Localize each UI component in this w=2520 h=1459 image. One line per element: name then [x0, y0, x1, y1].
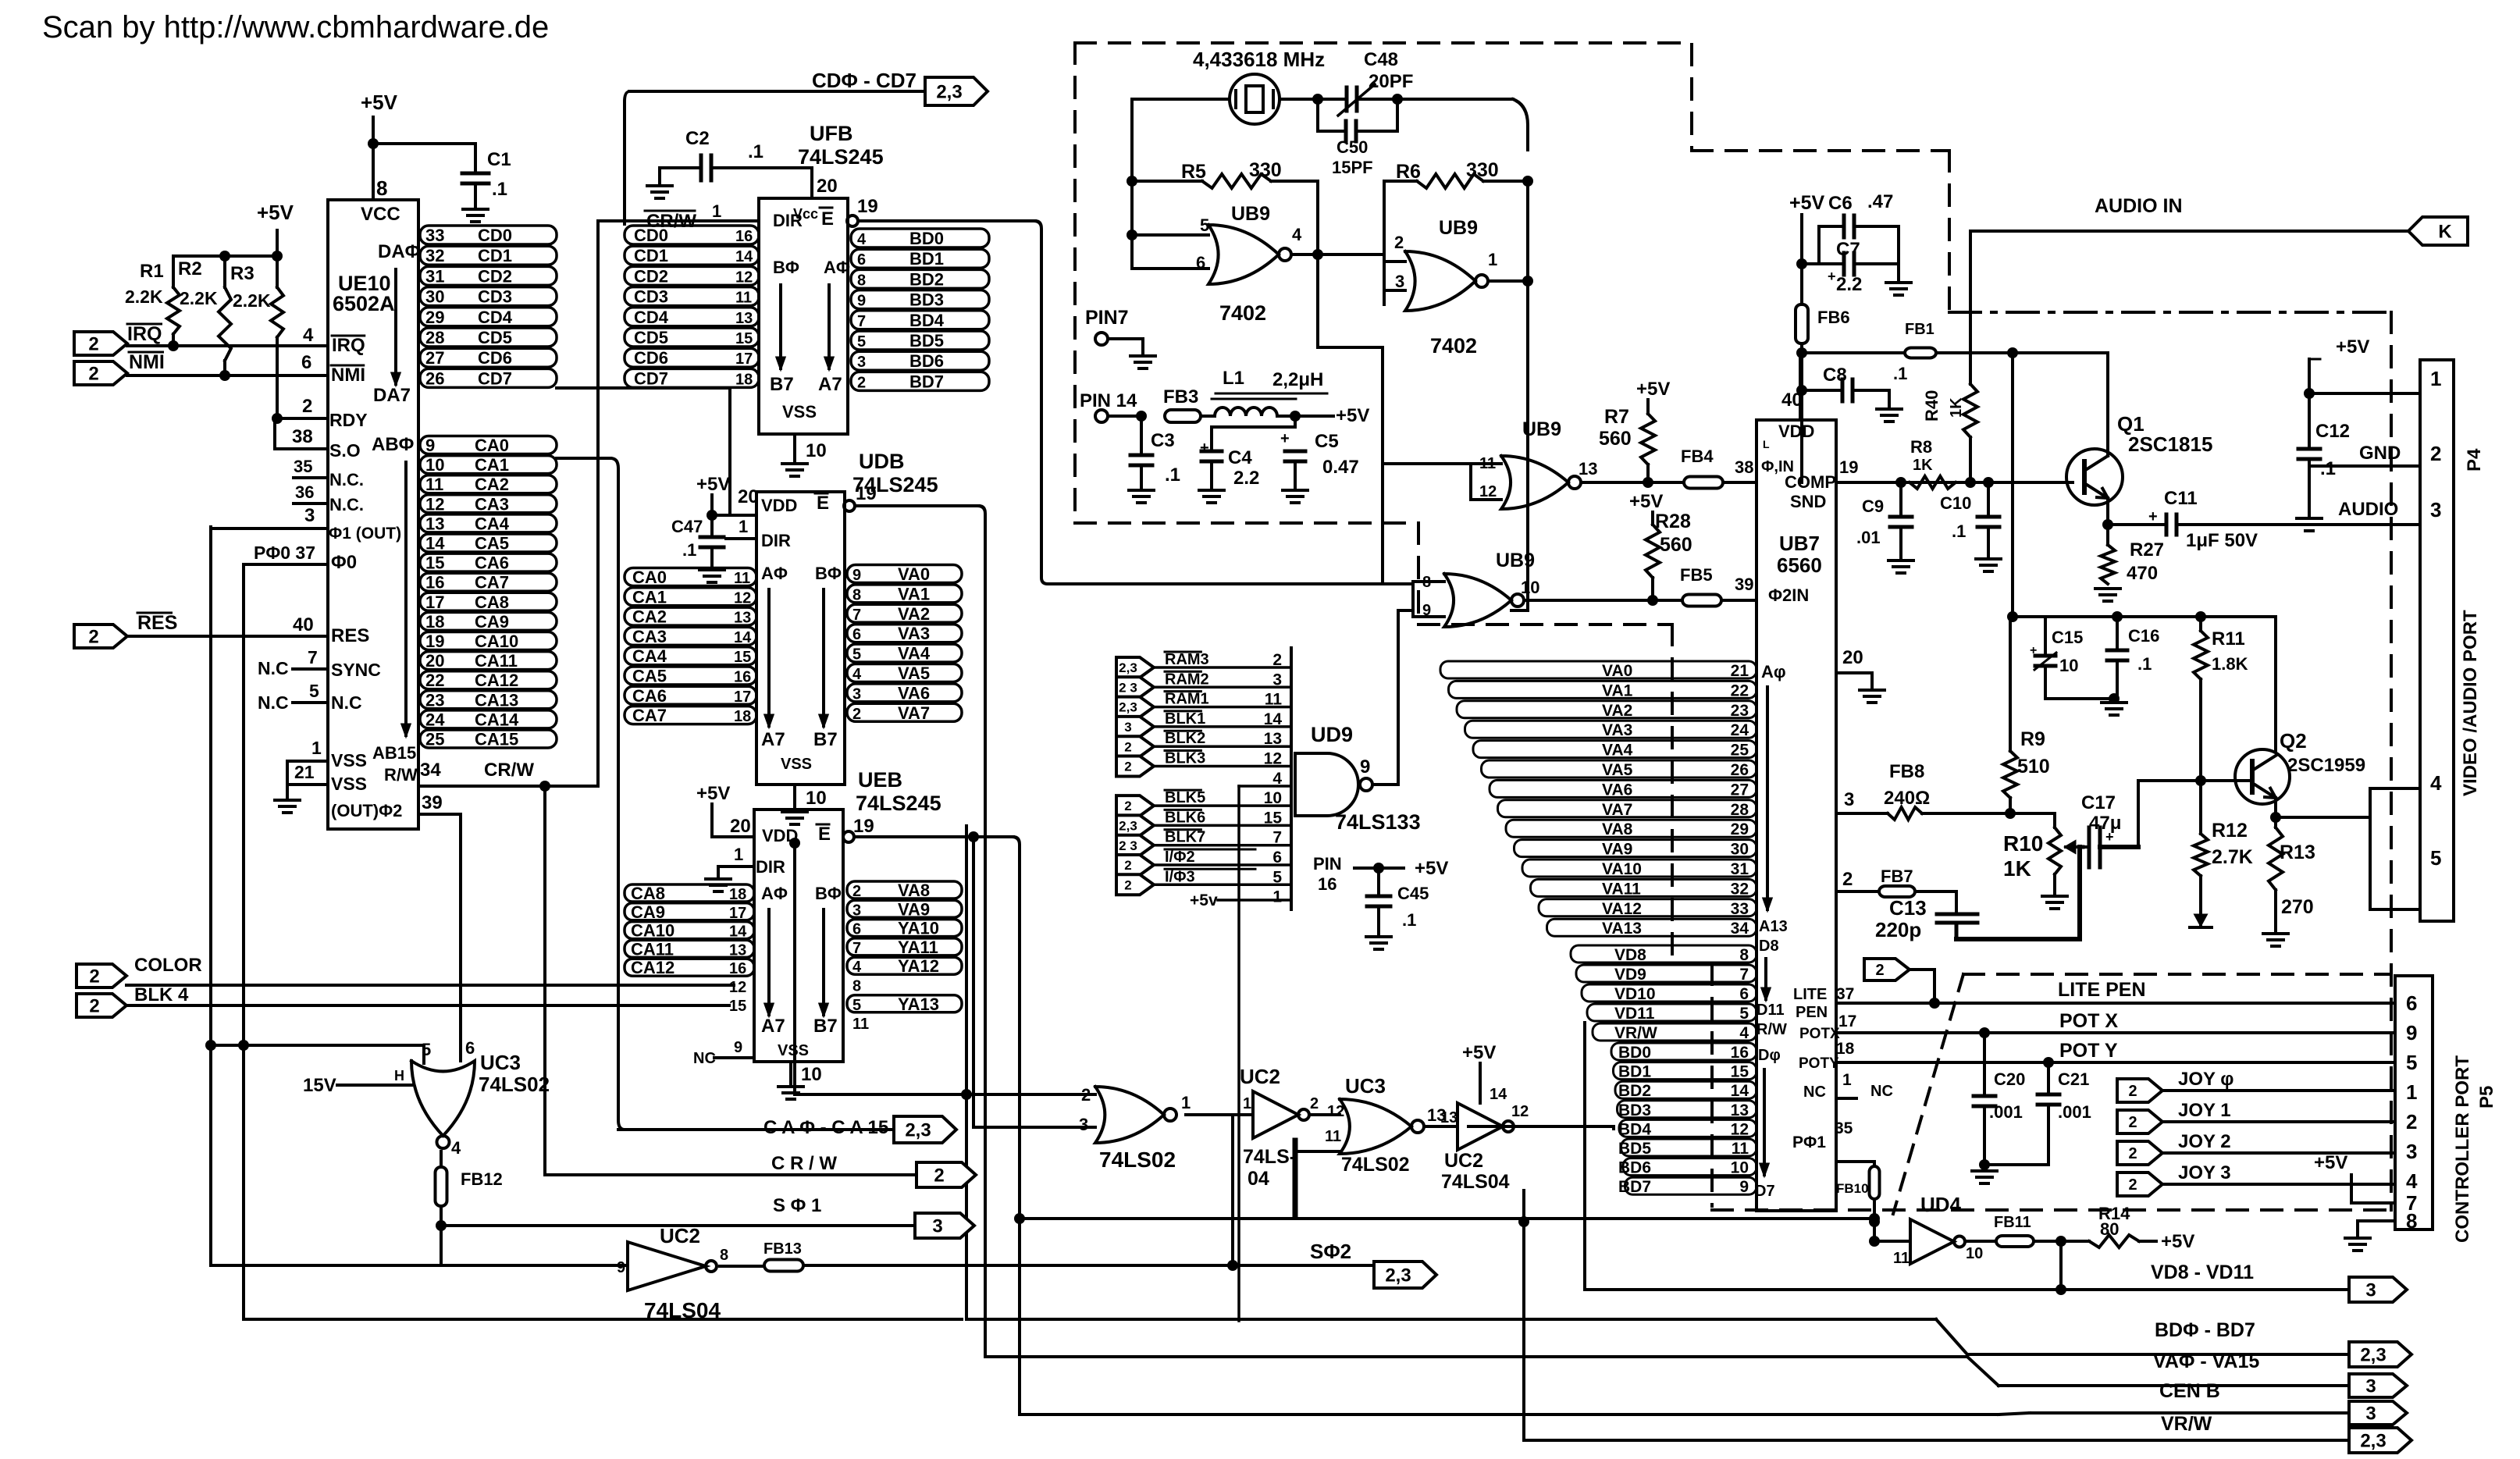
wire IRQ — [127, 344, 328, 347]
svg-text:VA3: VA3 — [898, 624, 930, 643]
svg-text:2,3: 2,3 — [2360, 1345, 2386, 1366]
svg-text:74LS02: 74LS02 — [479, 1073, 550, 1096]
svg-text:19: 19 — [1839, 457, 1858, 477]
svg-text:YA11: YA11 — [898, 938, 938, 957]
svg-text:9: 9 — [425, 436, 435, 455]
svg-text:BDΦ - BD7: BDΦ - BD7 — [2155, 1319, 2255, 1341]
svg-text:SΦ2: SΦ2 — [1310, 1240, 1351, 1263]
svg-text:CA11: CA11 — [631, 939, 674, 959]
svg-text:19: 19 — [856, 483, 877, 504]
svg-text:2: 2 — [2128, 1083, 2137, 1100]
svg-text:R1: R1 — [140, 261, 164, 282]
svg-text:2: 2 — [302, 396, 312, 417]
svg-text:21: 21 — [294, 762, 315, 782]
svg-text:2,3: 2,3 — [1119, 819, 1137, 834]
svg-text:2: 2 — [1124, 877, 1131, 892]
svg-text:13: 13 — [729, 941, 746, 959]
svg-text:CA6: CA6 — [632, 686, 667, 706]
svg-text:RAM2: RAM2 — [1165, 671, 1209, 688]
svg-text:C2: C2 — [685, 128, 710, 149]
RES input flag from page 2 — [74, 625, 127, 648]
svg-text:+5V: +5V — [2161, 1231, 2194, 1252]
svg-text:BΦ: BΦ — [815, 884, 842, 903]
svg-text:CA10: CA10 — [475, 632, 518, 651]
svg-text:.001: .001 — [1989, 1102, 2023, 1122]
wire BLK4 to UEB pin 15 — [126, 1004, 729, 1007]
svg-text:C7: C7 — [1836, 239, 1860, 260]
svg-text:12: 12 — [1327, 1103, 1344, 1120]
svg-text:CA9: CA9 — [631, 902, 665, 922]
svg-text:20PF: 20PF — [1369, 71, 1413, 92]
svg-text:CA4: CA4 — [632, 646, 667, 666]
svg-text:RES: RES — [331, 625, 369, 646]
svg-text:12: 12 — [1511, 1103, 1529, 1120]
svg-text:12: 12 — [1731, 1120, 1749, 1138]
wire to +5V — [1295, 415, 1333, 418]
svg-text:9: 9 — [734, 1039, 742, 1056]
long wire phi1 out down-left — [209, 527, 212, 1265]
svg-text:(OUT)Φ2: (OUT)Φ2 — [331, 801, 402, 820]
svg-text:17: 17 — [425, 592, 444, 612]
svg-text:D8: D8 — [1759, 938, 1779, 955]
svg-text:2,3: 2,3 — [1119, 660, 1137, 675]
UFB output BD0-BD7 rows pins — [851, 229, 989, 247]
svg-text:CA3: CA3 — [475, 494, 509, 514]
JOY 1 flag and wire — [2117, 1110, 2162, 1133]
svg-text:.1: .1 — [748, 141, 763, 162]
svg-text:E: E — [821, 208, 834, 230]
va bus long verticals — [965, 826, 968, 1319]
svg-text:B7: B7 — [770, 374, 794, 395]
wire rail right to Q2 collector — [2274, 617, 2277, 750]
svg-text:BD1: BD1 — [1618, 1063, 1651, 1081]
ferrite bead FB11 — [1965, 1240, 1996, 1243]
svg-text:CA15: CA15 — [475, 730, 518, 749]
svg-text:PΦ1: PΦ1 — [1792, 1133, 1826, 1151]
svg-text:BD6: BD6 — [1618, 1159, 1651, 1177]
capacitor C13 220p — [1955, 891, 1958, 914]
svg-text:BD4: BD4 — [1618, 1120, 1651, 1138]
svg-text:3: 3 — [304, 505, 315, 526]
svg-text:YA13: YA13 — [898, 995, 939, 1014]
pin 1 VSS — [287, 760, 328, 763]
svg-text:1: 1 — [734, 845, 743, 864]
wire from inverter2 output right — [1468, 1125, 1611, 1128]
UEB ground pin 10 — [789, 1062, 792, 1084]
svg-text:+5V: +5V — [257, 201, 294, 224]
UDB output VA0-VA7 rows — [847, 565, 962, 583]
svg-text:DIR: DIR — [761, 531, 791, 550]
svg-text:14: 14 — [734, 629, 752, 646]
svg-text:C45: C45 — [1397, 884, 1429, 903]
svg-text:JOY φ: JOY φ — [2178, 1069, 2233, 1090]
svg-text:COMP: COMP — [1785, 472, 1836, 492]
svg-text:18: 18 — [729, 886, 746, 903]
svg-text:NMI: NMI — [331, 365, 365, 386]
pin 36 N.C. — [294, 502, 325, 505]
svg-text:6: 6 — [1739, 985, 1749, 1003]
svg-text:N.C.: N.C. — [329, 470, 364, 489]
svg-text:6: 6 — [301, 352, 311, 373]
output wire UB9 second — [1488, 279, 1528, 283]
inverter UC2 74LS-04 — [1186, 1113, 1253, 1116]
svg-text:16: 16 — [735, 228, 753, 245]
svg-text:28: 28 — [1731, 801, 1749, 819]
svg-text:LITE PEN: LITE PEN — [2058, 979, 2146, 1001]
svg-text:CA4: CA4 — [475, 514, 510, 533]
wires into UB9 first — [1132, 233, 1208, 237]
svg-text:1: 1 — [2430, 367, 2441, 390]
capacitor C1 .1 — [474, 144, 477, 173]
svg-text:74LS02: 74LS02 — [1099, 1148, 1176, 1172]
svg-text:Vcc: Vcc — [793, 206, 818, 222]
svg-text:VCC: VCC — [361, 204, 400, 225]
svg-text:40: 40 — [293, 614, 314, 635]
svg-text:32: 32 — [1731, 880, 1749, 898]
svg-text:CA9: CA9 — [475, 612, 509, 632]
svg-text:14: 14 — [1731, 1082, 1749, 1100]
svg-text:10: 10 — [801, 1064, 822, 1085]
svg-text:11: 11 — [852, 1016, 869, 1033]
svg-text:R13: R13 — [2280, 842, 2315, 863]
svg-text:VA5: VA5 — [898, 664, 930, 683]
svg-text:10: 10 — [806, 440, 827, 461]
resistor R9 510 — [2009, 617, 2012, 751]
svg-text:2: 2 — [852, 883, 861, 900]
UEB input CA8-CA12 rows — [625, 884, 754, 902]
UEB output VA8-YA13 rows — [847, 881, 962, 899]
svg-text:20: 20 — [738, 486, 759, 507]
svg-text:23: 23 — [1731, 702, 1749, 720]
svg-text:FB7: FB7 — [1881, 867, 1913, 886]
svg-text:2,3: 2,3 — [936, 82, 962, 103]
svg-text:24: 24 — [425, 710, 445, 729]
svg-text:15: 15 — [425, 553, 444, 573]
svg-text:L: L — [1763, 438, 1770, 450]
svg-text:C21: C21 — [2058, 1069, 2089, 1089]
pin 5 N.C — [293, 701, 328, 704]
svg-text:22: 22 — [1731, 681, 1749, 699]
svg-text:6: 6 — [857, 251, 866, 269]
svg-text:470: 470 — [2127, 563, 2158, 584]
svg-text:A13: A13 — [1759, 918, 1788, 935]
svg-text:+5V: +5V — [1629, 491, 1663, 512]
svg-text:220p: 220p — [1875, 918, 1921, 941]
svg-text:CA2: CA2 — [632, 607, 667, 627]
svg-text:2: 2 — [2430, 442, 2441, 465]
svg-text:16: 16 — [1318, 874, 1337, 894]
ground at C2 — [658, 168, 661, 184]
svg-text:12: 12 — [1479, 483, 1497, 500]
UFB input CD0-CD7 rows — [625, 226, 759, 244]
svg-text:JOY 3: JOY 3 — [2178, 1162, 2231, 1183]
svg-text:.1: .1 — [492, 179, 507, 200]
svg-text:E: E — [817, 493, 829, 514]
UDB ground pin 10 — [793, 785, 796, 808]
svg-text:FB10: FB10 — [1836, 1181, 1869, 1196]
output wire UD9 up to UB9 gate4 — [1372, 783, 1398, 786]
svg-text:CA5: CA5 — [632, 667, 667, 686]
svg-text:4: 4 — [1739, 1024, 1749, 1042]
svg-text:4: 4 — [303, 325, 314, 346]
svg-text:CD0: CD0 — [478, 226, 512, 245]
svg-text:5: 5 — [857, 333, 866, 351]
svg-text:VR/W: VR/W — [2161, 1413, 2212, 1435]
svg-text:2: 2 — [1842, 869, 1853, 890]
svg-text:14: 14 — [1490, 1086, 1507, 1103]
svg-text:1: 1 — [1272, 888, 1282, 906]
svg-text:04: 04 — [1248, 1168, 1269, 1190]
svg-text:PΦ0 37: PΦ0 37 — [254, 543, 315, 563]
svg-text:560: 560 — [1599, 428, 1632, 450]
wire S.O bracket — [273, 418, 276, 449]
capacitor C9 .01 — [1899, 482, 1902, 517]
svg-text:UC3: UC3 — [480, 1051, 521, 1074]
wire R5 right down to gate output — [1316, 181, 1319, 347]
dashed box audio section — [1690, 44, 1693, 151]
svg-text:5: 5 — [309, 681, 319, 701]
pin 40 +5V top — [1799, 359, 1802, 420]
svg-text:16: 16 — [734, 669, 751, 686]
buffer UEB 74LS245 body — [754, 810, 843, 1062]
svg-text:C47: C47 — [671, 517, 703, 536]
svg-text:1: 1 — [1181, 1093, 1191, 1112]
svg-text:+5V: +5V — [2314, 1152, 2347, 1173]
svg-text:L1: L1 — [1223, 368, 1244, 389]
capacitor C3 .1 — [1140, 416, 1143, 455]
svg-text:13: 13 — [1579, 459, 1597, 479]
svg-text:17: 17 — [729, 905, 746, 922]
svg-text:C6: C6 — [1828, 193, 1853, 214]
svg-text:BD2: BD2 — [909, 269, 944, 289]
svg-text:17: 17 — [1838, 1012, 1856, 1030]
svg-text:FB11: FB11 — [1994, 1214, 2031, 1231]
svg-text:+: + — [2030, 644, 2037, 657]
svg-text:S.O: S.O — [329, 440, 361, 461]
svg-text:9: 9 — [852, 567, 861, 584]
svg-text:VD8 - VD11: VD8 - VD11 — [2151, 1262, 2254, 1283]
pin 21 VSS — [287, 783, 328, 786]
COLOR input flag — [77, 964, 126, 987]
ferrite bead FB12 — [440, 1151, 443, 1167]
svg-text:2: 2 — [1875, 962, 1884, 979]
svg-text:1: 1 — [712, 201, 721, 221]
svg-text:9: 9 — [617, 1259, 625, 1276]
svg-text:11: 11 — [1732, 1140, 1749, 1158]
svg-text:3: 3 — [1844, 789, 1854, 810]
svg-text:23: 23 — [425, 690, 444, 710]
svg-text:3: 3 — [2430, 498, 2441, 521]
svg-text:7: 7 — [308, 647, 318, 667]
svg-text:VD8: VD8 — [1614, 946, 1646, 964]
svg-text:1: 1 — [739, 517, 748, 536]
svg-text:2: 2 — [88, 364, 98, 385]
svg-text:RAM1: RAM1 — [1165, 691, 1209, 708]
svg-text:R3: R3 — [230, 263, 254, 284]
svg-text:CA14: CA14 — [475, 710, 519, 729]
svg-text:3: 3 — [852, 902, 861, 919]
svg-text:3: 3 — [857, 354, 866, 371]
svg-text:BD0: BD0 — [1618, 1044, 1651, 1062]
svg-text:POTY: POTY — [1799, 1055, 1839, 1072]
svg-text:AΦ: AΦ — [761, 884, 788, 903]
svg-text:P5: P5 — [2476, 1086, 2497, 1108]
svg-text:8: 8 — [2406, 1209, 2417, 1233]
wire from C48 right bending down — [1397, 98, 1513, 101]
svg-text:.1: .1 — [2320, 458, 2336, 479]
svg-text:VA9: VA9 — [898, 899, 930, 919]
JOY 3 flag and wire — [2117, 1173, 2162, 1196]
svg-text:+5v: +5v — [1190, 891, 1218, 909]
svg-text:YA12: YA12 — [898, 956, 939, 976]
svg-text:4,433618 MHz: 4,433618 MHz — [1193, 48, 1325, 71]
svg-text:FB12: FB12 — [461, 1169, 503, 1189]
output wire gate3 through FB4 — [1581, 481, 1684, 484]
svg-text:VA0: VA0 — [1602, 662, 1632, 680]
svg-text:CD0: CD0 — [634, 226, 668, 245]
NOR gate UC3 74LS02 second — [1309, 1113, 1340, 1116]
svg-text:B7: B7 — [813, 729, 838, 750]
svg-text:UB9: UB9 — [1439, 217, 1478, 239]
svg-text:10: 10 — [1731, 1159, 1749, 1177]
svg-text:H: H — [394, 1068, 404, 1084]
cd bus corner down to UFB stack — [625, 91, 629, 224]
svg-text:VSS: VSS — [331, 750, 367, 770]
long wire from phi1 at bottom — [211, 1264, 441, 1267]
svg-text:C4: C4 — [1228, 447, 1252, 468]
svg-text:CD1: CD1 — [634, 246, 668, 265]
svg-text:2.2: 2.2 — [1233, 468, 1259, 489]
svg-text:5: 5 — [1739, 1005, 1749, 1023]
svg-text:15: 15 — [735, 330, 753, 347]
svg-text:AB15: AB15 — [372, 743, 416, 763]
svg-text:21: 21 — [1731, 662, 1749, 680]
svg-text:1μF 50V: 1μF 50V — [2186, 530, 2258, 551]
svg-text:VA5: VA5 — [1602, 761, 1633, 779]
svg-text:UFB: UFB — [810, 122, 853, 145]
svg-text:20: 20 — [1842, 647, 1863, 668]
svg-text:8: 8 — [720, 1247, 728, 1264]
svg-text:10: 10 — [425, 455, 444, 475]
svg-text:VA2: VA2 — [1602, 702, 1632, 720]
wire input5 from phi1 line — [211, 1044, 424, 1047]
svg-text:Scan by http://www.cbmhardware: Scan by http://www.cbmhardware.de — [42, 10, 549, 44]
svg-text:A7: A7 — [761, 1016, 785, 1037]
svg-text:BLK2: BLK2 — [1165, 730, 1205, 747]
svg-text:UEB: UEB — [858, 768, 902, 792]
svg-text:1: 1 — [2406, 1080, 2417, 1104]
svg-text:29: 29 — [1731, 820, 1749, 838]
svg-text:15: 15 — [729, 998, 746, 1015]
svg-text:AΦ: AΦ — [824, 258, 850, 277]
svg-text:CD3: CD3 — [478, 287, 512, 307]
svg-text:12: 12 — [734, 589, 751, 607]
svg-text:VA0: VA0 — [898, 564, 930, 584]
svg-text:3: 3 — [852, 685, 861, 703]
svg-text:NC: NC — [693, 1050, 716, 1067]
Q2 emitter wire to P4 pin4 — [2274, 798, 2277, 817]
svg-text:37: 37 — [1836, 985, 1854, 1003]
svg-text:D7: D7 — [1755, 1183, 1775, 1200]
wire NMI — [127, 374, 328, 377]
svg-text:VD10: VD10 — [1614, 985, 1656, 1003]
svg-text:VD9: VD9 — [1614, 966, 1646, 984]
svg-text:20: 20 — [730, 816, 751, 837]
svg-text:7: 7 — [852, 607, 861, 624]
svg-text:29: 29 — [425, 308, 444, 327]
svg-text:5: 5 — [852, 646, 861, 664]
svg-text:2: 2 — [852, 706, 861, 723]
svg-text:PEN: PEN — [1796, 1004, 1828, 1021]
svg-text:DIR: DIR — [756, 857, 785, 877]
svg-text:BD6: BD6 — [909, 351, 944, 371]
svg-text:VA8: VA8 — [1602, 820, 1633, 838]
svg-text:Q2: Q2 — [2280, 729, 2307, 753]
svg-text:.1: .1 — [1952, 521, 1966, 541]
UB7 VA0-VA13 input rows pins 21-34 — [1440, 661, 1757, 678]
cd bus exit wire below CD7 — [557, 386, 730, 390]
svg-text:UDB: UDB — [859, 450, 905, 473]
svg-text:C15: C15 — [2052, 628, 2083, 647]
JOY 2 flag and wire — [2117, 1141, 2162, 1165]
svg-text:2: 2 — [857, 374, 866, 391]
ca bus wrap wire to UDB and flag — [557, 457, 610, 460]
svg-text:2SC1959: 2SC1959 — [2287, 755, 2365, 776]
svg-text:BD4: BD4 — [909, 311, 945, 330]
svg-text:PIN: PIN — [1313, 854, 1342, 874]
svg-text:16: 16 — [425, 573, 444, 592]
svg-text:6: 6 — [2406, 991, 2417, 1015]
svg-text:2: 2 — [88, 627, 98, 648]
BLK4 input flag — [77, 994, 126, 1017]
svg-text:15V: 15V — [303, 1075, 336, 1096]
svg-text:K: K — [2438, 222, 2452, 243]
svg-text:CD6: CD6 — [478, 348, 512, 368]
svg-text:CA7: CA7 — [632, 706, 667, 725]
inverter UC2 74LS04 second — [1424, 1125, 1458, 1128]
svg-text:2.2K: 2.2K — [125, 286, 163, 307]
svg-text:.01: .01 — [1856, 528, 1881, 547]
svg-text:25: 25 — [1731, 742, 1749, 760]
svg-text:2,3: 2,3 — [2360, 1431, 2386, 1452]
svg-text:74LS245: 74LS245 — [856, 792, 941, 815]
wire inverter output to BD4 row — [1612, 1126, 1615, 1129]
svg-text:YA10: YA10 — [898, 919, 939, 938]
svg-text:VA4: VA4 — [1602, 742, 1633, 760]
svg-text:POT X: POT X — [2059, 1010, 2118, 1032]
svg-text:R12: R12 — [2212, 820, 2248, 842]
svg-text:4: 4 — [2406, 1169, 2418, 1193]
svg-text:34: 34 — [420, 760, 441, 781]
svg-text:FB3: FB3 — [1163, 386, 1198, 407]
svg-text:4: 4 — [1292, 225, 1302, 244]
thick wire to pin 11 — [1293, 1141, 1298, 1216]
svg-text:Φ1 (OUT): Φ1 (OUT) — [329, 525, 401, 543]
svg-text:11: 11 — [734, 570, 750, 587]
capacitor C20 .001 — [1983, 1033, 1986, 1096]
svg-text:N.C.: N.C. — [329, 495, 364, 514]
pin 37 phi0 wire — [244, 563, 328, 566]
svg-text:POT Y: POT Y — [2059, 1040, 2118, 1062]
ferrite bead FB13 — [720, 1265, 764, 1268]
svg-text:UB7: UB7 — [1779, 532, 1820, 555]
rail from audio-in vertical down to C15 C16 R11 — [2011, 353, 2014, 617]
svg-text:VA7: VA7 — [898, 703, 930, 723]
svg-text:C9: C9 — [1862, 496, 1884, 516]
svg-text:2.2K: 2.2K — [233, 290, 271, 311]
svg-text:AUDIO: AUDIO — [2338, 499, 2398, 520]
svg-text:CA1: CA1 — [475, 455, 509, 475]
